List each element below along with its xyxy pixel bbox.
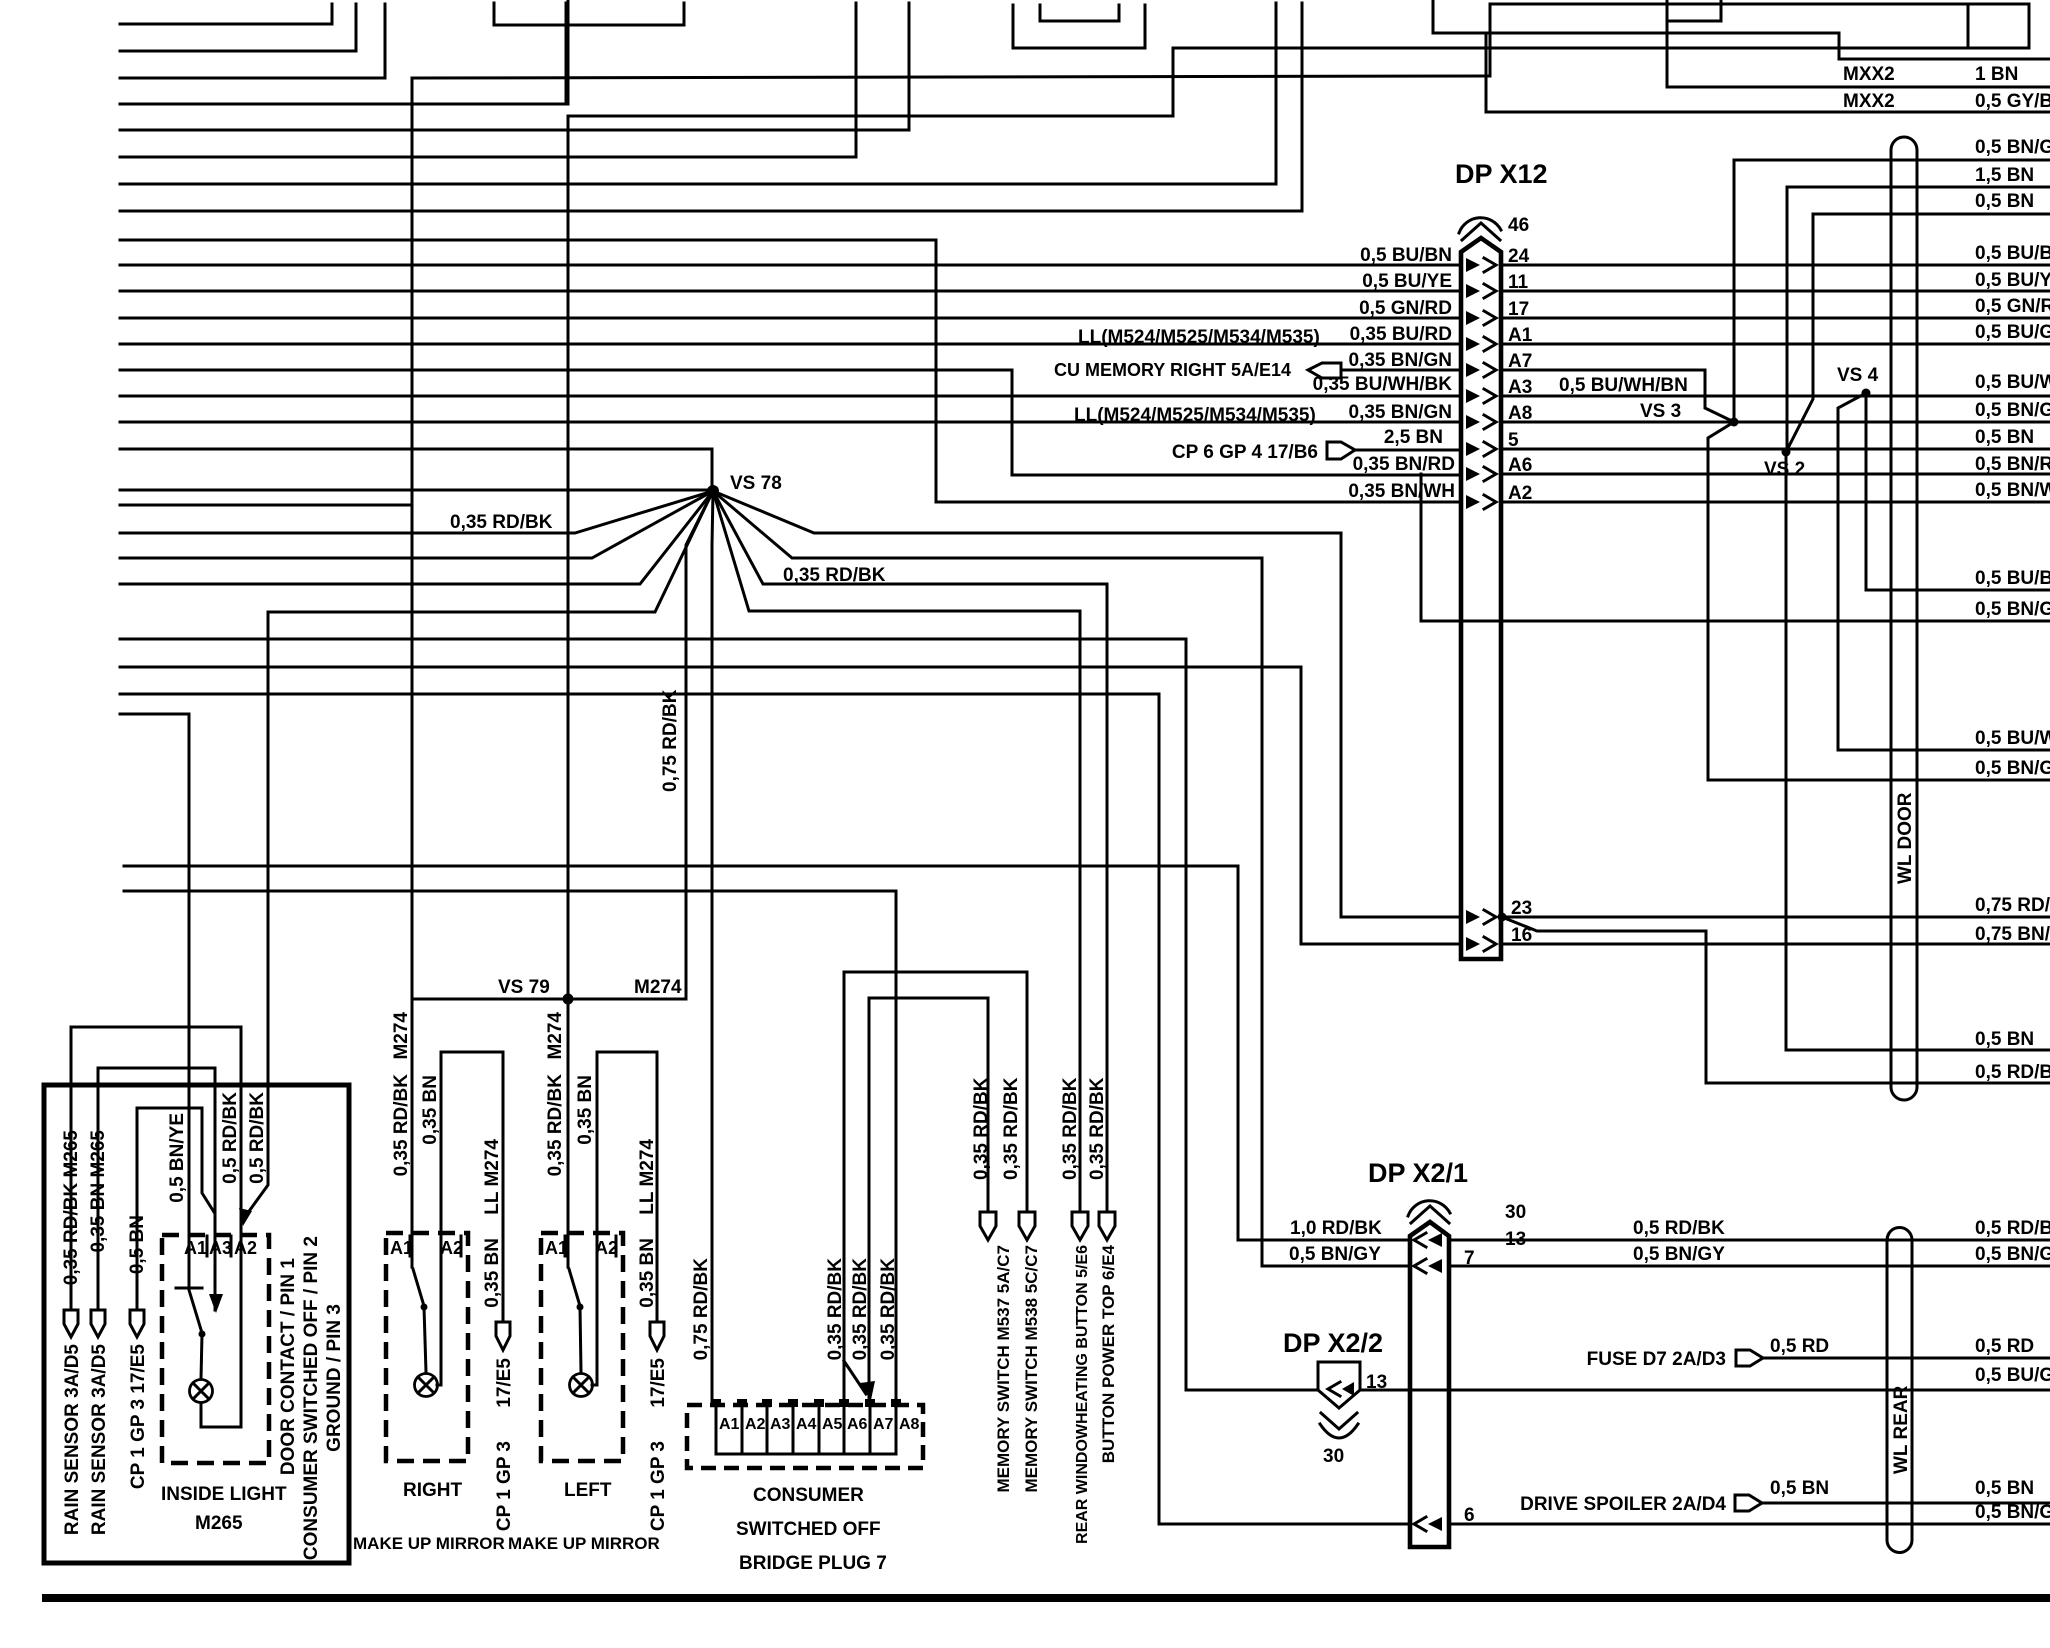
wire 998 left leg to bridge A7 [868,998,871,1398]
vertical 568 upper [567,0,570,104]
svg-text:BRIDGE PLUG 7: BRIDGE PLUG 7 [739,1553,887,1574]
svg-text:CP 1 GP 3: CP 1 GP 3 [494,1441,515,1531]
socket arrow cp1 [130,1310,144,1337]
wire row 24 [120,264,1461,267]
bridge pin stub A4 [792,1405,795,1454]
wire 33-line [1433,0,2050,59]
svg-text:1,0 RD/BK: 1,0 RD/BK [1290,1218,1382,1239]
wire row A3 [120,395,1461,398]
svg-text:0,5 BN/GN: 0,5 BN/GN [1975,758,2050,779]
svg-text:MXX2: MXX2 [1843,91,1895,112]
svg-text:CU MEMORY RIGHT 5A/E14: CU MEMORY RIGHT 5A/E14 [1054,360,1291,380]
wire A2 right mirror [437,1052,503,1385]
svg-text:LL M274: LL M274 [637,1139,658,1215]
svg-text:0,35 RD/BK: 0,35 RD/BK [1001,1077,1022,1180]
wire fan a [120,491,713,533]
wire row 17 [120,317,1461,320]
svg-text:A6: A6 [847,1416,868,1433]
svg-text:0,35 BN: 0,35 BN [482,1238,503,1308]
connector DP X12 body [1461,238,1501,959]
svg-text:0,35 RD/BK: 0,35 RD/BK [825,1258,846,1361]
wire 160 line [1734,159,2050,162]
wire L8 [120,3,1302,211]
wire fuse east [1763,1357,2050,1360]
svg-text:A3: A3 [770,1416,791,1433]
bridge pin stub A6 [843,1405,846,1454]
bridge pin stub A8 [895,1405,898,1454]
wire 714 to inside light A1 [120,714,189,1288]
wire rain1 to inside light A2 [71,1027,241,1427]
svg-text:0,75 RD/BK: 0,75 RD/BK [660,689,681,792]
svg-text:DP X12: DP X12 [1455,159,1548,189]
svg-text:A2: A2 [234,1238,257,1258]
bridge pin stub A1 [715,1405,718,1454]
svg-text:CONSUMER SWITCHED OFF / PIN 2: CONSUMER SWITCHED OFF / PIN 2 [301,1236,322,1560]
switch right mirror [413,1269,424,1306]
wire 931 pin16 east [1501,943,2050,946]
svg-text:0,35 BN/GN: 0,35 BN/GN [1349,402,1452,423]
connector DP X2/2 clamp [1321,1413,1357,1429]
svg-text:0,5 BU/BN: 0,5 BU/BN [1975,568,2050,589]
svg-text:A1: A1 [184,1238,207,1258]
svg-text:LL(M524/M525/M534/M535): LL(M524/M525/M534/M535) [1078,327,1320,348]
svg-text:0,75 RD/BK: 0,75 RD/BK [691,1258,712,1361]
wire 0,5 BN to A3 junction [137,1108,214,1212]
svg-text:1,5 BN: 1,5 BN [1975,165,2034,186]
lamp right mirror [415,1374,438,1397]
svg-text:0,5 BU/BN: 0,5 BU/BN [1975,243,2050,264]
svg-text:0,35 BU/RD: 0,35 BU/RD [1350,324,1452,345]
wire L4 to node at x568 [120,3,566,104]
svg-text:0,35 RD/BK: 0,35 RD/BK [545,1074,566,1177]
svg-text:DRIVE SPOILER 2A/D4: DRIVE SPOILER 2A/D4 [1520,1494,1726,1515]
wire lamp return to A2 [201,1403,241,1427]
wire 868 to DP X2/1 pin13 [124,866,1410,1240]
pin 13 x22 [1328,1382,1340,1396]
pin 24 [1466,258,1480,272]
wire top outer U [1013,5,1145,48]
wire VS2 diag from 1813 [1786,214,1813,452]
wire rowA2 east [1501,501,2050,504]
wire L1 [120,4,332,24]
svg-text:0,5 BU/GN: 0,5 BU/GN [1975,322,2050,343]
svg-text:30: 30 [1505,1202,1526,1223]
inside light dashed box [162,1235,269,1463]
socket arrow cp left mirror [650,1322,664,1350]
wire rowA6 branch drop [1421,474,2050,621]
wire row 11 [120,290,1461,293]
svg-text:A8: A8 [899,1416,920,1433]
node VS4 [1862,389,1871,398]
svg-text:0,5 BN/RD: 0,5 BN/RD [1975,454,2050,475]
wire U 998 [869,998,988,1212]
wire fan f [713,491,1410,1266]
socket arrow memory M537 [980,1212,996,1240]
connector DP X2/2 shield [1318,1362,1360,1408]
pin 17 [1466,311,1480,325]
svg-text:0,5 BU/BN: 0,5 BU/BN [1360,245,1452,266]
pin A6 [1466,467,1480,481]
pin 13 x21 [1414,1233,1426,1247]
svg-text:0,35 BN: 0,35 BN [420,1075,441,1145]
wire 568 jog to 116 line [568,4,2029,116]
svg-text:17/E5: 17/E5 [494,1358,515,1408]
svg-text:CP 1 GP 3: CP 1 GP 3 [648,1441,669,1531]
wire fan west [120,489,713,492]
wire 78-line east from 413 [413,76,1490,78]
make up mirror left dashed box [541,1233,623,1461]
svg-text:INSIDE LIGHT: INSIDE LIGHT [161,1484,287,1505]
svg-text:0,5 RD: 0,5 RD [1975,1336,2034,1357]
wire VS79 horizontal [412,998,686,1001]
wire rowA7 east to VS3 [1501,370,1734,422]
wire row A8 [120,421,1461,424]
svg-text:A3: A3 [209,1238,232,1258]
svg-text:A4: A4 [796,1416,817,1433]
wire CP 6 tail [1355,449,1461,452]
svg-text:MAKE UP MIRROR: MAKE UP MIRROR [353,1534,505,1553]
svg-text:0,35 RD/BK: 0,35 RD/BK [1060,1077,1081,1180]
make up mirror right dashed box [386,1233,468,1461]
vertical rain1 [70,1027,73,1310]
svg-text:30: 30 [1323,1446,1344,1467]
wire fan down 712 [712,491,713,1405]
svg-text:LL M274: LL M274 [482,1139,503,1215]
svg-text:CP 1 GP 3 17/E5: CP 1 GP 3 17/E5 [128,1344,149,1489]
svg-text:MAKE UP MIRROR: MAKE UP MIRROR [508,1534,660,1553]
svg-text:0,5 BN/GY: 0,5 BN/GY [1975,1502,2050,1523]
wire switch to lamp [424,1307,426,1372]
svg-text:0,5 BU/YE: 0,5 BU/YE [1362,271,1452,292]
wire VS2 drop [1786,452,2050,1050]
node pin23 junction [1498,913,1507,922]
wire VS4 diag drop [1838,393,2050,750]
svg-text:0,5 BN/GY: 0,5 BN/GY [1289,1244,1381,1265]
socket arrow rain2 [91,1310,105,1337]
wire pin23 east [1502,916,2050,919]
pin 5 [1466,442,1480,456]
wire VS78 riser [711,449,714,491]
socket arrow spoiler [1735,1495,1762,1511]
wire 972 left leg to bridge A6 [843,972,846,1405]
svg-text:A7: A7 [873,1416,894,1433]
wire x22 row west [1186,1389,1318,1392]
svg-text:0,5 RD/BK: 0,5 RD/BK [1633,1218,1725,1239]
wire fan c east [713,491,1107,1212]
svg-text:A2: A2 [745,1416,766,1433]
svg-text:0,35 RD/BK: 0,35 RD/BK [1087,1077,1108,1180]
switch door contact [176,1288,202,1333]
svg-text:M274: M274 [634,977,682,998]
wire row11 east [1501,290,2050,293]
svg-text:0,5 RD/BK: 0,5 RD/BK [220,1092,241,1184]
svg-text:0,35 BN/RD: 0,35 BN/RD [1353,454,1455,475]
bridge plug bus bar [716,1453,896,1456]
svg-text:46: 46 [1508,215,1529,236]
svg-text:0,5 RD: 0,5 RD [1770,1336,1829,1357]
bridge pin stub A2 [741,1405,744,1454]
bridge pin stub A5 [818,1405,821,1454]
pin A8 [1466,415,1480,429]
svg-text:MXX2: MXX2 [1843,64,1895,85]
svg-text:0,5 BN: 0,5 BN [1770,1478,1829,1499]
vertical M274 right A1 [411,78,414,1267]
pin 7 x21 [1414,1259,1426,1273]
pin A7 [1466,363,1480,377]
svg-text:GROUND / PIN 3: GROUND / PIN 3 [324,1304,345,1452]
wire row7 east [1449,1265,2050,1268]
bridge pin ticks [711,1399,901,1407]
svg-text:0,75 BN/BK: 0,75 BN/BK [1975,924,2050,945]
svg-text:0,35 RD/BK: 0,35 RD/BK [391,1074,412,1177]
svg-text:0,35 RD/BK: 0,35 RD/BK [878,1258,899,1361]
connector DP X2/1 clamp [1408,1201,1450,1216]
svg-text:0,35 RD/BK M265: 0,35 RD/BK M265 [61,1130,82,1286]
arrowhead A2 merge [239,1208,252,1226]
svg-text:0,5 BU/WH: 0,5 BU/WH [1975,728,2050,749]
wire L5 [120,3,909,130]
wire top inner U [1040,5,1119,21]
bridge pin stub A7 [869,1405,872,1454]
wire L7 [120,3,1276,184]
svg-text:0,5 RD/BK: 0,5 RD/BK [1975,1062,2050,1083]
svg-text:BUTTON POWER TOP 6/E4: BUTTON POWER TOP 6/E4 [1099,1244,1118,1463]
vertical 1734 from 160 [1733,160,1736,422]
wire row5 east [1501,448,2050,451]
lamp left mirror [570,1374,593,1397]
wire L6 [120,3,856,157]
switch left mirror [568,1233,580,1306]
svg-text:CONSUMER: CONSUMER [753,1485,864,1506]
svg-text:M274: M274 [391,1012,412,1060]
wire 694 to pin6 [120,694,1410,1524]
pin divider [206,1236,209,1256]
svg-text:WL REAR: WL REAR [1891,1385,1912,1474]
wire diagonal pin23 to 931 [1502,917,2050,1083]
harness capsule WL DOOR [1891,137,1917,1100]
socket arrow rain1 [64,1310,78,1337]
svg-text:M274: M274 [545,1012,566,1060]
svg-text:0,5 BN: 0,5 BN [1975,427,2034,448]
bottom page rule [42,1594,2050,1602]
svg-text:2,5 BN: 2,5 BN [1384,427,1443,448]
svg-text:0,5 BU/YE: 0,5 BU/YE [1975,270,2050,291]
vertical 568 lower to left mirror A1 [567,116,570,1233]
wire VS4 drop2 [1866,393,2050,590]
wire top T stub [1967,4,1970,48]
svg-text:FUSE D7 2A/D3: FUSE D7 2A/D3 [1587,1349,1726,1370]
svg-text:0,35 RD/BK: 0,35 RD/BK [850,1258,871,1361]
svg-text:17/E5: 17/E5 [648,1358,669,1408]
wire rowA8 east [1501,421,2050,424]
wire spoiler east [1762,1502,2050,1505]
svg-text:RAIN SENSOR 3A/D5: RAIN SENSOR 3A/D5 [89,1344,110,1536]
bridge pin stub A3 [766,1405,769,1454]
vertical rain2 [97,1068,100,1310]
svg-text:0,5 BN: 0,5 BN [1975,191,2034,212]
svg-text:1 BN: 1 BN [1975,64,2018,85]
node VS3 [1730,418,1739,427]
svg-text:0,35 BN/WH: 0,35 BN/WH [1348,481,1455,502]
svg-text:LL(M524/M525/M534/M535): LL(M524/M525/M534/M535) [1074,405,1316,426]
pin A2 [1466,495,1480,509]
wire 112 MXX2 line [1486,33,2050,112]
svg-text:CP 6 GP 4 17/B6: CP 6 GP 4 17/B6 [1172,442,1318,463]
svg-text:0,5 GN/RD: 0,5 GN/RD [1359,298,1452,319]
svg-text:MEMORY SWITCH M538 5C/C7: MEMORY SWITCH M538 5C/C7 [1022,1245,1041,1493]
svg-text:0,5 RD/BK: 0,5 RD/BK [247,1092,268,1184]
svg-text:0,5 BN/GN: 0,5 BN/GN [1975,599,2050,620]
wire 214 line [1813,213,2050,216]
svg-text:WL DOOR: WL DOOR [1895,792,1916,884]
svg-text:0,5 RD/BK: 0,5 RD/BK [1975,1218,2050,1239]
pin A1 [1466,337,1480,351]
svg-text:0,5 GY/BK: 0,5 GY/BK [1975,91,2050,112]
wire top U link [494,3,684,25]
svg-text:M265: M265 [195,1513,243,1534]
socket arrow memory M538 [1019,1212,1035,1240]
wire L3 [120,4,385,78]
wire 187 line [1787,186,2050,189]
pin 16 [1466,937,1480,951]
svg-text:LEFT: LEFT [564,1480,612,1501]
wire diag branch to A7 [844,1361,866,1394]
wire fan c [120,491,713,584]
wire row 5 [120,448,712,451]
inside light M265 outer box [44,1085,349,1563]
wire VS3 drop [1708,422,2050,780]
wire L9 to vertical 936 [120,240,936,502]
svg-text:DP X2/1: DP X2/1 [1368,1158,1468,1188]
socket arrow fuse [1736,1350,1763,1366]
wire U 972 [844,972,1027,1212]
wire 87 MXX2 1 BN line [1667,0,2050,87]
wire fan g [713,491,1080,1212]
svg-text:0,35 BN/GN: 0,35 BN/GN [1349,350,1452,371]
wire switch to lamp left [580,1307,581,1372]
socket arrow cp right mirror [496,1322,510,1350]
arrowhead A3 consumer [209,1294,223,1313]
svg-text:0,5 BU/GN: 0,5 BU/GN [1975,1365,2050,1386]
svg-text:REAR WINDOWHEATING BUTTON 5/E: REAR WINDOWHEATING BUTTON 5/E6 [1074,1245,1091,1544]
pin 11 [1466,284,1480,298]
wire rowA1 east [1501,343,2050,346]
svg-text:VS 3: VS 3 [1640,401,1681,422]
wire row17 east [1501,317,2050,320]
wire fan down 686 [686,491,713,999]
wire 891 to bridge A8 [124,891,896,1405]
wire row A2 from vertical 936 [936,501,1461,504]
wire 667 to pin16 [120,667,1461,944]
wire row A1 [120,343,1461,346]
svg-text:0,5 BN: 0,5 BN [127,1215,148,1274]
wire x22 row east [1360,1389,2050,1392]
vertical 1787 from 187 [1786,187,1789,452]
wire switch to lamp [201,1334,202,1379]
pin 23 [1466,910,1480,924]
socket arrow CU MEMORY [1308,363,1341,378]
svg-text:VS 4: VS 4 [1837,365,1879,386]
svg-text:0,5 BU/WH/BN: 0,5 BU/WH/BN [1975,372,2050,393]
wire L2 [120,4,356,51]
svg-text:A5: A5 [822,1416,843,1433]
svg-text:SWITCHED OFF: SWITCHED OFF [736,1519,881,1540]
wire row13 east [1449,1239,2050,1242]
harness capsule WL REAR [1887,1228,1912,1553]
wire branch fan d down to A2 [247,612,268,1214]
wire row A7 to row A6 jog [120,370,1461,475]
arrowhead into A7 [860,1381,875,1400]
svg-text:A1: A1 [719,1416,740,1433]
svg-text:RIGHT: RIGHT [403,1480,463,1501]
socket arrow rear window [1072,1212,1088,1240]
svg-text:0,5 BN/YE: 0,5 BN/YE [167,1113,188,1203]
svg-text:DOOR CONTACT / PIN 1: DOOR CONTACT / PIN 1 [278,1258,299,1476]
wire fan b [120,491,713,558]
wire row24 east [1501,264,2050,267]
lamp symbol [190,1380,213,1403]
svg-text:VS 79: VS 79 [498,977,550,998]
svg-text:0,35 BN M265: 0,35 BN M265 [88,1130,109,1253]
svg-text:0,5 BN/GY: 0,5 BN/GY [1633,1244,1725,1265]
vertical cp1 gp3 [136,1108,139,1310]
svg-text:0,35 RD/BK: 0,35 RD/BK [971,1077,992,1180]
pin A3 [1466,389,1480,403]
node VS 78 [707,485,719,497]
wire fan d [268,491,713,612]
wire top small U right [1667,0,1721,21]
svg-text:0,5 BN/GY: 0,5 BN/GY [1975,1244,2050,1265]
svg-text:0,5 GN/RD: 0,5 GN/RD [1975,296,2050,317]
wire fan e [713,491,1461,917]
wire 639 to DP X2/2 [120,639,1186,1390]
connector DP X2/1 body [1410,1222,1449,1547]
svg-text:0,35 RD/BK: 0,35 RD/BK [450,512,553,533]
pin 6 x21 [1414,1517,1426,1531]
node VS 79 [563,994,574,1005]
svg-text:MEMORY SWITCH M537 5A/C7: MEMORY SWITCH M537 5A/C7 [994,1245,1013,1493]
socket arrow button power [1099,1212,1115,1240]
svg-text:0,5 BN/GN: 0,5 BN/GN [1975,400,2050,421]
svg-text:VS 78: VS 78 [730,473,782,494]
svg-text:0,5 BU/WH/BN: 0,5 BU/WH/BN [1559,375,1688,396]
wire row6 east [1449,1523,2050,1526]
wire A2 left mirror [592,1052,657,1385]
svg-text:0,5 BN: 0,5 BN [1975,1478,2034,1499]
svg-text:RAIN SENSOR 3A/D5: RAIN SENSOR 3A/D5 [62,1344,83,1536]
pin divider [230,1236,233,1256]
svg-text:0,5 BN/GN: 0,5 BN/GN [1975,137,2050,158]
wire rowA6 east [1501,473,2050,476]
svg-text:0,75 RD/BK: 0,75 RD/BK [1975,895,2050,916]
wire rain2 to inside light A3 [98,1068,215,1310]
wire CU MEMORY tail [1341,369,1461,372]
node VS2 [1782,448,1791,457]
socket arrow CP 6 GP 4 [1327,442,1355,459]
connector DP X12 clamp symbol [1459,218,1501,233]
svg-text:0,5 BN/WH: 0,5 BN/WH [1975,480,2050,501]
wire branch to mirror A1 [120,504,412,507]
svg-text:0,5 BN: 0,5 BN [1975,1029,2034,1050]
svg-text:0,35 BN: 0,35 BN [637,1238,658,1308]
wire rowA3 east [1501,395,2050,398]
svg-text:DP X2/2: DP X2/2 [1283,1328,1383,1358]
bridge plug dashed box [687,1405,923,1468]
svg-text:0,35 BN: 0,35 BN [575,1075,596,1145]
